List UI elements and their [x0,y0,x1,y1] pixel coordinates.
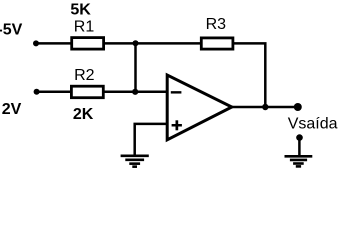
node Vsaida terminal dot [294,103,302,111]
resistor R1 [72,38,104,50]
wire from R3 right then down (feedback) [233,43,265,107]
wire from -5V node to R1 [36,42,72,45]
junction node dot output/feedback [262,104,268,110]
wire from R1 to R3 [104,42,201,45]
svg-text:Vsaída: Vsaída [288,116,338,133]
svg-text:R1: R1 [74,18,95,35]
op-amp non-inverting input marker + [172,124,182,127]
node 2V input terminal dot [34,89,40,95]
svg-text:2K: 2K [73,106,94,123]
op-amp inverting input marker - [171,91,182,93]
wire from R2 to op-amp inverting input [104,91,167,94]
svg-text:5K: 5K [70,1,91,18]
junction node dot B [132,89,138,95]
wire ground stem [298,138,301,156]
svg-text:R2: R2 [74,67,95,84]
node -5V input terminal dot [33,40,39,46]
wire junction A down to inverting input line [134,43,137,91]
resistor R3 [201,38,233,49]
op-amp U1 [167,75,232,140]
svg-text:2V: 2V [2,101,22,118]
wire non-inverting input to ground [135,124,167,156]
ground (non-inverting input) [121,156,149,167]
resistor R2 [71,86,103,98]
svg-text:R3: R3 [206,16,227,33]
ground (output reference) terminal dot [296,134,303,141]
svg-text:-5V: -5V [0,21,23,38]
junction node dot A [133,40,139,46]
wire op-amp output [232,106,298,109]
ground (output reference) [285,156,313,166]
wire from 2V node to R2 [37,91,72,94]
